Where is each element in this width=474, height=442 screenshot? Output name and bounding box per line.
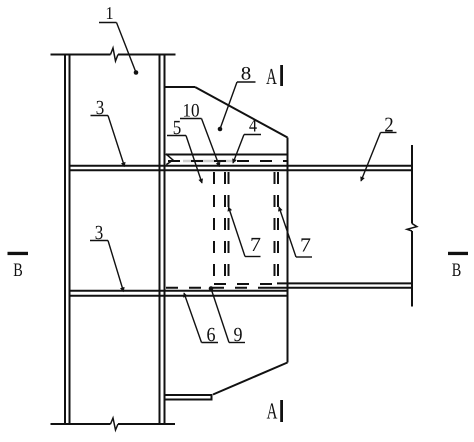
column 1: right flange outer line bbox=[164, 55, 166, 425]
section mark B right: overline bbox=[448, 252, 468, 255]
label 9 text bbox=[234, 328, 242, 341]
label 9 leader bbox=[211, 289, 229, 343]
label 5 text bbox=[174, 121, 181, 134]
label 2 text bbox=[385, 118, 393, 132]
stiffener 3 upper and beam 2 top flange upper line bbox=[70, 165, 413, 167]
label 5 leader bbox=[186, 136, 202, 184]
label 1 leader bbox=[117, 23, 137, 73]
section mark B left: text bbox=[14, 264, 22, 276]
label 5 underline bbox=[167, 135, 186, 137]
label 8 leader dot bbox=[218, 127, 223, 132]
label 9 underline bbox=[229, 342, 245, 344]
stiffener 3 upper and beam 2 top flange lower line bbox=[70, 169, 413, 171]
label 1 underline bbox=[99, 22, 117, 24]
beam 2 bottom flange lower line bbox=[270, 287, 412, 289]
gusset 8 top sloped edge bbox=[195, 87, 288, 138]
label 6 leader bbox=[184, 293, 202, 343]
section mark B right: text bbox=[452, 264, 460, 276]
label 4 underline bbox=[244, 134, 261, 136]
label 8 text bbox=[242, 67, 251, 80]
column 1: left flange outer line bbox=[64, 55, 66, 425]
bolt 7 line left pair a bbox=[224, 172, 226, 284]
gusset 8 bottom sloped edge bbox=[213, 363, 288, 395]
gusset bottom plate lower line bbox=[165, 399, 212, 401]
top splice plate 4 upper edge bbox=[166, 154, 288, 156]
label 3 lower leader bbox=[108, 241, 124, 292]
hidden edge dashed: web splice plate bottom edge bbox=[214, 283, 277, 285]
gusset bottom plate end cap bbox=[211, 394, 213, 401]
bolt 7 line right pair a bbox=[274, 172, 276, 284]
beam 2 right end vertical with break symbol bbox=[411, 145, 413, 307]
label 3 upper text bbox=[97, 101, 104, 114]
label 3 lower text bbox=[96, 226, 103, 239]
beam 2 bottom flange upper line bbox=[277, 282, 412, 284]
label 7 left underline bbox=[245, 256, 261, 258]
label 1 text bbox=[107, 7, 113, 19]
bolt 7 line left pair b bbox=[228, 172, 230, 284]
column 1: left flange inner line bbox=[69, 55, 71, 425]
label 6 text bbox=[207, 328, 215, 341]
gusset 8 right vertical edge bbox=[287, 138, 289, 363]
scan ghost on hidden dashed line bbox=[183, 160, 236, 162]
gusset bottom plate upper line bbox=[165, 394, 212, 396]
label 8 underline bbox=[237, 81, 256, 83]
section mark A bottom: text bbox=[267, 403, 278, 418]
column 1: cap plate line with break symbol bbox=[51, 54, 176, 56]
label 7 left text bbox=[251, 238, 260, 251]
section mark A top: bar bbox=[280, 65, 283, 86]
label 1 leader dot bbox=[134, 70, 139, 75]
label 2 underline bbox=[381, 132, 397, 134]
label 3 upper leader bbox=[108, 116, 125, 167]
column 1: right flange inner line bbox=[159, 55, 161, 425]
label 4 text bbox=[249, 119, 257, 132]
label 10 text bbox=[184, 104, 199, 117]
label 10 underline bbox=[180, 118, 202, 120]
label 7 right text bbox=[301, 238, 310, 251]
label 7 right underline bbox=[296, 256, 312, 258]
hidden edge dashed: bottom splice plate upper edge bbox=[166, 287, 270, 289]
hidden edge dashed: top splice plate lower edge bbox=[168, 160, 288, 162]
label 9 leader dot bbox=[209, 286, 214, 291]
label 3 upper underline bbox=[91, 115, 109, 117]
gusset 8 top edge horizontal bbox=[165, 86, 196, 88]
stiffener 3 lower and bracket bottom flange lower line bbox=[70, 295, 288, 297]
label 2 leader bbox=[361, 133, 381, 182]
column 1: bottom line with break symbol bbox=[51, 423, 176, 425]
label 8 leader bbox=[220, 82, 237, 129]
label 6 underline bbox=[202, 342, 219, 344]
section mark B left: overline bbox=[8, 252, 29, 255]
label 7 left leader bbox=[229, 207, 246, 257]
bolt 7 line right pair b bbox=[277, 172, 279, 284]
label 4 leader bbox=[233, 135, 244, 164]
section mark A bottom: bar bbox=[280, 400, 283, 422]
section mark A top: text bbox=[266, 69, 277, 84]
stiffener 3 lower and bracket bottom flange upper line bbox=[70, 290, 288, 292]
hidden edge dashed: web splice plate left edge bbox=[213, 172, 215, 284]
weld wedge at top splice plate left end bbox=[166, 154, 173, 165]
label 7 right leader bbox=[279, 207, 296, 257]
label 10 leader bbox=[202, 119, 220, 167]
label 3 lower underline bbox=[90, 240, 108, 242]
